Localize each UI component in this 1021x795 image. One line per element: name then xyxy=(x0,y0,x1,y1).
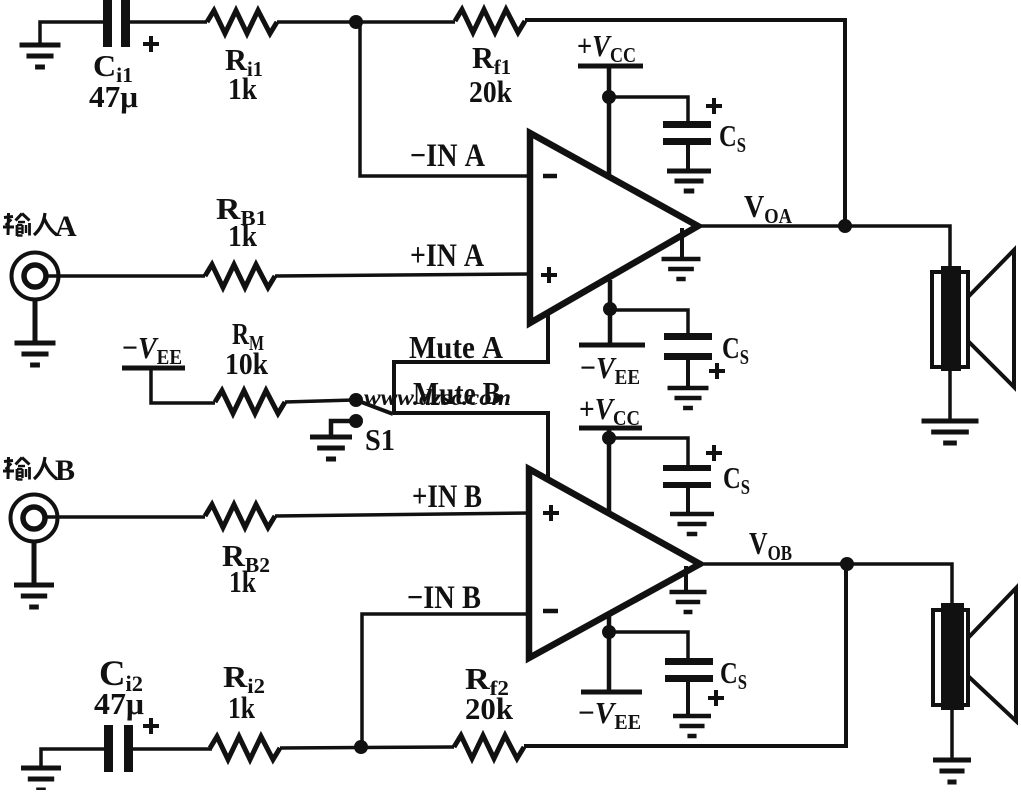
CS4 lead to ground xyxy=(686,682,690,715)
ground G6 under CS2 xyxy=(668,388,709,408)
wire jack B to RB2 xyxy=(45,515,205,519)
wire Ci1 to Ri1 xyxy=(130,20,207,24)
svg-text:47μ: 47μ xyxy=(89,79,138,114)
label -VEE (B) xyxy=(578,695,641,734)
svg-text:S1: S1 xyxy=(365,422,395,457)
ground G2 under jack A xyxy=(15,343,56,365)
supply bar -VEE (B) xyxy=(581,690,642,695)
label Rf1 xyxy=(472,40,511,79)
CS1 lead to ground xyxy=(686,145,690,170)
CS2 lead to ground xyxy=(686,360,690,388)
node VOB junction xyxy=(840,557,854,571)
speaker B voice coil xyxy=(933,603,968,710)
label Ci1 xyxy=(93,48,133,87)
wire +VCC A to CS1 xyxy=(609,97,688,122)
resistor RB1 1k xyxy=(205,265,275,288)
ground G9 under CS3 xyxy=(670,514,714,534)
label S1 xyxy=(365,422,395,457)
node VOA junction xyxy=(838,219,852,233)
label CS1 xyxy=(719,118,746,157)
speaker A horn xyxy=(968,250,1014,387)
wire op-amp A to -VEE xyxy=(608,280,613,344)
capacitor CS3 (plates) xyxy=(663,465,711,488)
CS3 lead to ground xyxy=(686,488,690,513)
capacitor CS4 (plates) xyxy=(665,658,713,682)
svg-text:1k: 1k xyxy=(229,564,257,599)
label Rf2 value 20k xyxy=(465,691,514,726)
ground G1 top-left xyxy=(20,45,61,67)
svg-text:47μ: 47μ xyxy=(94,686,144,721)
label CS2 xyxy=(722,330,749,369)
wire Ri2 to node N2 xyxy=(280,747,454,748)
CS3 polarity + xyxy=(706,445,722,461)
node -VEE A xyxy=(603,302,617,316)
svg-text:+IN B: +IN B xyxy=(412,479,482,515)
wire +VCC B down to op-amp xyxy=(607,430,612,513)
resistor Rf2 20k xyxy=(454,736,524,759)
wire Rf1 to output VOA (top feedback) xyxy=(525,20,845,222)
label Mute B xyxy=(413,375,501,411)
svg-text:−IN B: −IN B xyxy=(407,580,481,616)
wire Ri1 to node N1 to Rf1 xyxy=(277,20,455,24)
label -IN A xyxy=(410,138,485,174)
wire -VEE B to CS4 xyxy=(609,632,688,659)
label RB2 value 1k xyxy=(229,564,257,599)
label Ci2 xyxy=(99,653,143,696)
wire output VOB xyxy=(704,564,952,603)
wire Mute B xyxy=(393,413,548,481)
wire bottom-left ground to Ci2 xyxy=(41,749,104,767)
switch S1 pole dot xyxy=(349,414,363,428)
label input B (Chinese 'shu ru' B) xyxy=(3,454,75,487)
CS4 polarity + xyxy=(708,690,724,706)
label RB2 xyxy=(222,538,270,577)
wire +VCC B to CS3 xyxy=(609,438,688,466)
label -VEE (A) xyxy=(580,350,640,389)
Ci1 polarity + xyxy=(143,36,159,52)
switch S1 arm xyxy=(356,400,393,414)
node N1 junction xyxy=(349,15,363,29)
wire -VEE A to CS2 xyxy=(610,310,688,334)
resistor RM 10k xyxy=(215,391,285,414)
switch S1 pole to ground hook xyxy=(331,421,356,436)
label Mute A xyxy=(409,329,503,365)
supply bar +VCC (B) xyxy=(579,426,642,431)
svg-text:1k: 1k xyxy=(228,71,258,106)
label Ci2 value 47u xyxy=(94,686,144,721)
svg-text:Mute B: Mute B xyxy=(413,375,501,411)
capacitor CS1 (plates) xyxy=(663,121,711,145)
capacitor CS2 (plates) xyxy=(664,333,712,360)
ground G13 bottom-left xyxy=(21,768,61,790)
wire op-amp B to -VEE xyxy=(607,614,612,691)
label RM xyxy=(232,316,264,355)
svg-text:+IN A: +IN A xyxy=(410,238,484,274)
node N2 junction xyxy=(354,740,368,754)
resistor RB2 1k xyxy=(205,505,275,528)
label +IN B xyxy=(412,479,482,515)
wire output VOA xyxy=(701,226,950,266)
label +VCC (B) xyxy=(579,391,640,430)
op-amp U1 (channel A) xyxy=(530,133,698,323)
label Ri1 xyxy=(225,42,263,81)
wire -VEE to RM xyxy=(151,370,215,403)
op-amp U1 ground pin stub xyxy=(680,228,684,258)
ground G5 op-amp A output side xyxy=(662,259,701,279)
resistor Rf1 20k xyxy=(455,10,525,33)
label +IN A xyxy=(410,238,484,274)
label Rf1 value 20k xyxy=(469,74,513,109)
svg-text:10k: 10k xyxy=(225,346,269,381)
jack B ground stub xyxy=(32,541,37,584)
speaker B horn xyxy=(968,588,1016,721)
ground G12 under speaker B xyxy=(933,760,971,782)
op-amp U2 minus input sign xyxy=(543,609,558,614)
svg-text:−IN A: −IN A xyxy=(410,138,485,174)
svg-text:1k: 1k xyxy=(228,218,258,253)
wire -IN B xyxy=(362,614,529,744)
wire +VCC A down to op-amp xyxy=(607,68,612,176)
CS2 polarity + xyxy=(709,363,725,379)
label RB1 value 1k xyxy=(228,218,258,253)
wire jack A to RB1 xyxy=(46,274,205,278)
capacitor Ci2 47u (plates) xyxy=(104,725,133,772)
node +VCC B xyxy=(602,431,616,445)
jack A ground stub xyxy=(33,299,38,342)
wire RM to switch node xyxy=(285,400,354,402)
wire top-left to ground stub xyxy=(40,22,104,44)
label input A (Chinese 'shu ru' A) xyxy=(3,210,77,243)
svg-text:A: A xyxy=(55,210,77,243)
speaker A to ground xyxy=(948,371,952,420)
ground G11 under CS4 xyxy=(673,716,711,736)
label Rf2 xyxy=(465,661,509,700)
node +VCC A xyxy=(602,90,616,104)
node switch throw xyxy=(349,393,363,407)
svg-text:20k: 20k xyxy=(465,691,514,726)
label -IN B xyxy=(407,580,481,616)
label Ri1 value 1k xyxy=(228,71,258,106)
label CS3 xyxy=(723,460,750,499)
op-amp U1 plus input sign xyxy=(541,267,557,283)
CS1 polarity + xyxy=(706,98,722,114)
op-amp U2 ground pin stub xyxy=(684,566,688,592)
ground G10 op-amp B output side xyxy=(670,592,707,612)
op-amp U1 minus input sign xyxy=(543,174,557,179)
svg-text:1k: 1k xyxy=(228,690,256,725)
ground G4 under CS1 xyxy=(667,171,711,191)
watermark www.dzsc.com xyxy=(364,385,511,411)
wire RB1 to +IN A xyxy=(275,274,530,276)
label -VEE (RM) xyxy=(122,330,182,369)
label CS4 xyxy=(720,655,747,694)
ground G7 under speaker A xyxy=(922,421,979,443)
label Ci1 value 47u xyxy=(89,79,138,114)
ground G3 at S1 xyxy=(310,437,352,459)
svg-text:Mute A: Mute A xyxy=(409,329,503,365)
supply bar +VCC (A) xyxy=(578,64,643,69)
ground G8 under jack B xyxy=(14,585,54,607)
op-amp U2 plus input sign xyxy=(543,505,559,521)
resistor Ri2 1k xyxy=(210,737,280,760)
wire Mute A xyxy=(394,303,548,413)
RCA connector input B xyxy=(11,495,58,542)
label VOB xyxy=(749,525,792,565)
label +VCC (A) xyxy=(577,28,636,67)
op-amp U2 (channel B) xyxy=(529,469,700,658)
wire Ci2 to Ri2 xyxy=(133,747,212,751)
label VOA xyxy=(744,188,793,228)
svg-text:20k: 20k xyxy=(469,74,513,109)
supply bar -VEE (A) xyxy=(579,343,645,348)
svg-text:B: B xyxy=(55,454,75,487)
wire RB2 to +IN B xyxy=(275,513,529,516)
label RM value 10k xyxy=(225,346,269,381)
Ci2 polarity + xyxy=(143,718,159,734)
RCA connector input A xyxy=(12,253,59,300)
resistor Ri1 1k xyxy=(207,11,277,34)
label Ri2 xyxy=(223,659,265,698)
wire Rf2 feedback up to VOB xyxy=(524,566,846,746)
supply bar -VEE (RM) xyxy=(122,366,185,371)
capacitor Ci1 47u (plates) xyxy=(103,0,130,47)
label Ri2 value 1k xyxy=(228,690,256,725)
wire node N1 down to -IN A xyxy=(360,24,528,176)
label RB1 xyxy=(216,191,267,230)
speaker B to ground xyxy=(950,710,954,759)
node -VEE B xyxy=(602,625,616,639)
speaker A voice coil xyxy=(932,266,968,371)
